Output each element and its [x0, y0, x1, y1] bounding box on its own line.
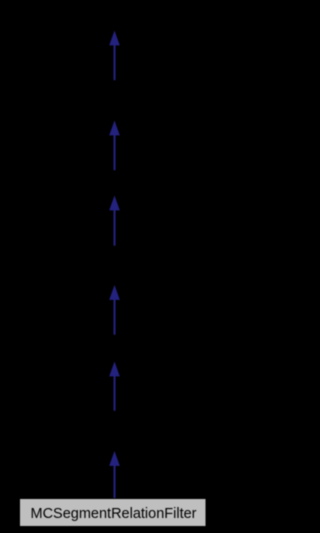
arrow 3	[109, 196, 120, 246]
arrow 4	[109, 285, 120, 335]
inheritance graph	[0, 0, 229, 533]
arrow 1 (topmost inheritance edge)	[109, 31, 120, 81]
node MCSegmentRelationFilter (highlighted class box)	[20, 499, 207, 527]
svg-text:MCSegmentRelationFilter: MCSegmentRelationFilter	[30, 506, 196, 522]
arrow 2	[109, 121, 120, 171]
arrow 5	[109, 362, 120, 411]
arrow 6 (edge into MCSegmentRelationFilter)	[109, 451, 120, 498]
